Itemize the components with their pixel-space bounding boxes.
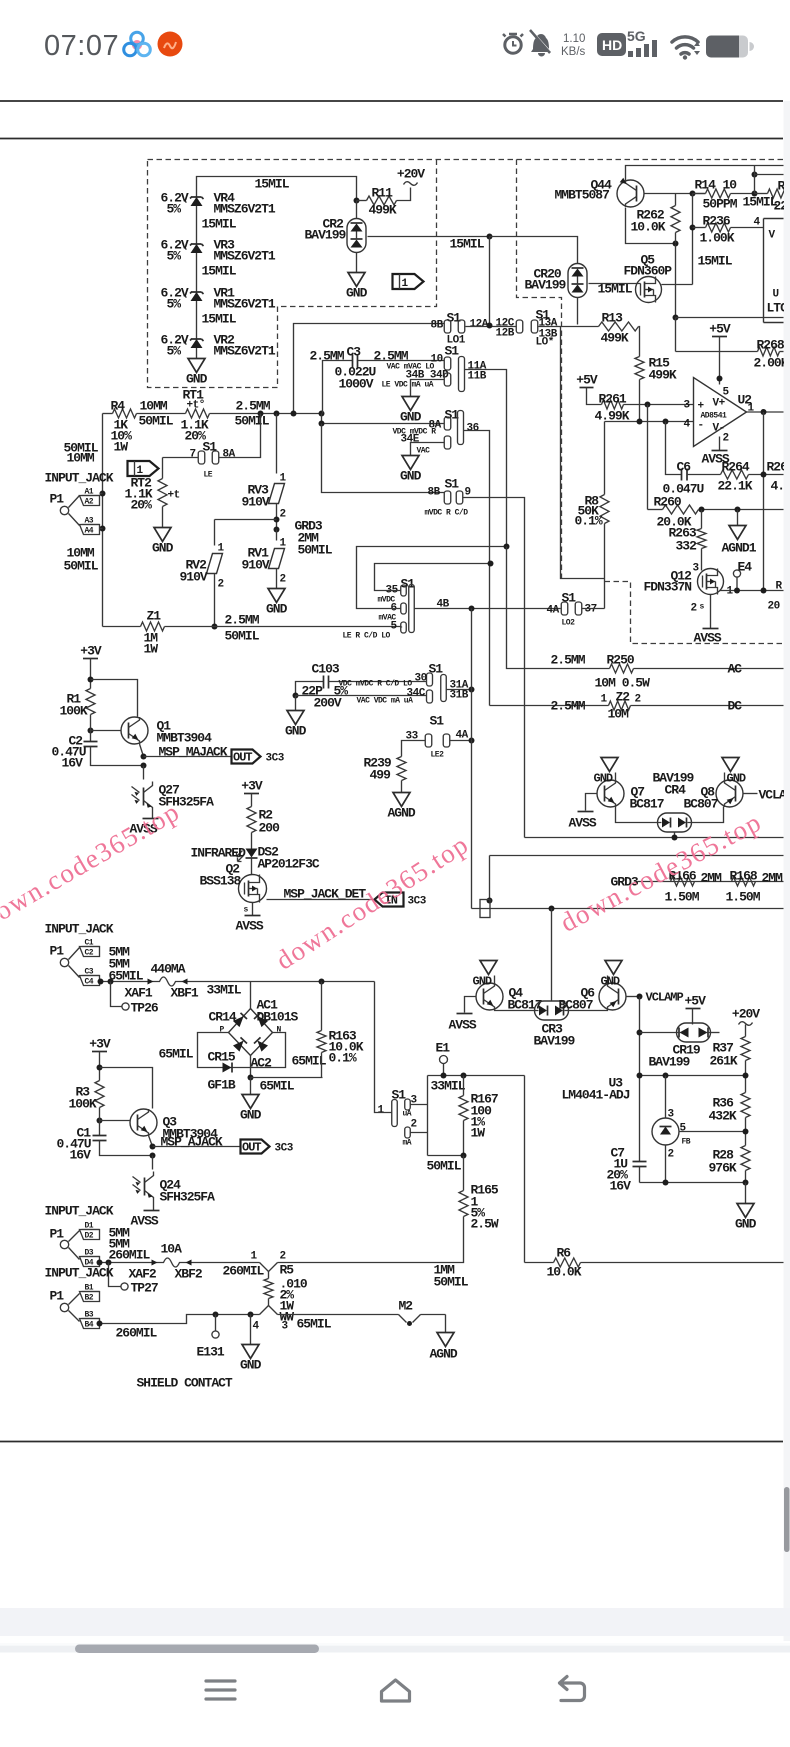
svg-text:P1: P1 [50,492,65,507]
svg-text:1: 1 [218,543,225,555]
status bar HD badge [597,33,626,56]
wire Q1 collector [91,680,138,717]
svg-text:4A: 4A [547,605,560,617]
svg-text:GND: GND [152,541,174,556]
svg-text:LO*: LO* [536,337,554,349]
pad net tie [480,900,490,918]
resistor R168 [726,869,784,905]
label 260MIL B [116,1326,158,1341]
junction jack D b [106,1260,112,1266]
svg-text:65MIL: 65MIL [159,1047,194,1062]
svg-text:+20V: +20V [732,1007,760,1022]
svg-text:R5: R5 [280,1263,295,1278]
label 5MM jack C [109,945,144,984]
switch S1 LE [190,440,236,480]
junction R14 left [690,191,696,197]
wire vclamp rail [490,856,784,901]
svg-text:4: 4 [684,419,691,431]
svg-text:S1: S1 [445,344,460,359]
svg-text:s: s [700,603,705,612]
connector P1 jack D [50,1222,100,1268]
svg-text:E131: E131 [197,1345,225,1360]
svg-text:LM4041-ADJ: LM4041-ADJ [562,1088,630,1103]
svg-text:100K: 100K [60,704,88,719]
svg-text:LE2: LE2 [431,751,445,760]
nav menu button [206,1681,235,1699]
junction wire908 [549,906,555,912]
dashed box right outline [517,160,784,644]
svg-text:2.5W: 2.5W [471,1217,499,1232]
ground R28 [735,1183,757,1232]
power +5V U2 [709,322,731,385]
junction 4B [469,606,475,612]
svg-text:M2: M2 [399,1299,414,1314]
svg-text:V+: V+ [713,398,726,410]
capacitor C1 [57,1108,153,1163]
label INPUT_JACK A [45,471,114,486]
svg-text:AVSS: AVSS [131,1214,159,1229]
svg-text:R6: R6 [557,1246,572,1261]
shunt reference U3 [652,1076,691,1183]
svg-text:AVSS: AVSS [694,631,722,646]
wire CR20 to Q5 [589,283,641,285]
transistor Q6 [559,983,627,1013]
svg-text:10A: 10A [161,1242,183,1257]
junction Q1 emitter b [141,763,147,769]
wire U2 feedback vertical [763,412,765,591]
wire jack D [100,1262,149,1264]
svg-text:R268: R268 [757,338,785,353]
junction Q5-R268 [673,315,679,321]
wire R13 to R15 [639,327,640,357]
wire pin4 to R8 [604,422,606,495]
svg-text:MSP_MAJACK: MSP_MAJACK [159,745,228,760]
junction RT1 wire a [258,411,264,417]
wire 33 to R239 [402,741,426,757]
junction u3bot a [663,1180,669,1186]
svg-text:+5V: +5V [685,994,707,1009]
wire bus524 to CR4 rail [525,837,784,839]
svg-text:+20V: +20V [397,167,425,182]
label 15MIL c [202,312,237,327]
svg-text:A2: A2 [85,498,94,507]
wire U2 pin4 left [605,421,694,423]
resistor R250 [551,653,784,691]
svg-text:C2: C2 [85,949,94,958]
flag IN jackdet [375,893,427,908]
wire Q6 emitter [568,1010,608,1011]
svg-text:50MIL: 50MIL [139,414,174,429]
wire S1 LE right up [219,414,261,458]
svg-text:15MIL: 15MIL [202,312,237,327]
transistor Q3 [130,1109,218,1142]
power +3V DS2 [241,779,263,807]
svg-text:XAF2: XAF2 [129,1267,157,1282]
svg-text:9: 9 [465,487,471,499]
svg-text:15MIL: 15MIL [202,217,237,232]
status bar alarm icon [503,34,523,53]
junction bridge top [319,979,325,985]
resistor R37 [710,1037,751,1093]
status bar time [44,30,119,62]
svg-text:1.50M: 1.50M [665,890,700,905]
label 10MM 50MIL [139,399,174,429]
phototransistor Q24 [133,1156,216,1211]
wire 4A to bus [450,740,472,742]
ground Q4 [473,961,498,989]
switch S1 LOstar [496,308,558,349]
dual diode CR4 [653,771,695,833]
switch S1 uA-mA [378,1088,418,1148]
junction R14 right [752,172,758,197]
wire u3 top rail [640,1075,746,1077]
svg-text:1: 1 [280,538,287,550]
point E4 [733,560,752,591]
label 50MIL [427,1159,462,1174]
capacitor C3 [310,345,445,414]
svg-text:BAV199: BAV199 [305,228,347,243]
wire CR2 mid to right [368,236,490,238]
wire GRD3 [611,875,784,890]
junction LE2 4A [469,738,475,744]
wire pad5 link [401,627,403,628]
junction gnd bottom [248,1312,254,1318]
ground CR2 [346,273,368,301]
switch S1 11AB [444,344,486,392]
svg-text:CR14: CR14 [209,1010,237,1025]
ground AGND R239 [388,793,416,821]
svg-text:200V: 200V [314,696,342,711]
svg-text:15MIL: 15MIL [698,254,733,269]
resistor R2 [247,807,280,849]
svg-text:16V: 16V [70,1148,92,1163]
wire 8B row [322,424,445,493]
svg-text:260MIL: 260MIL [223,1264,265,1279]
svg-text:30: 30 [415,673,427,685]
fuse XAF2 XBF2 [129,1242,203,1282]
resistor R165 [278,1156,499,1263]
svg-text:16V: 16V [62,756,84,771]
svg-text:8A: 8A [223,449,236,461]
zener VR1 [161,286,276,312]
junction 15MIL-12A [487,234,493,240]
resistor RT2 [125,458,180,528]
label VDC mVDC R C/D LO [339,680,413,689]
wire CR3 center [551,909,553,1002]
svg-text:XAF1: XAF1 [125,986,153,1001]
svg-text:KB/s: KB/s [561,46,586,58]
wire fuse to bridge [191,981,375,983]
resistor R268 [676,318,789,371]
wire 34B to gnd [411,380,445,397]
svg-text:2: 2 [668,1149,674,1161]
watermark left [0,796,185,934]
mosfet Q2 [200,862,267,915]
svg-text:DB101S: DB101S [257,1010,299,1025]
svg-text:VDC mVDC R C/D LO: VDC mVDC R C/D LO [339,680,413,689]
label 10MM jack A top [64,441,99,466]
junction U2 pin3 [645,402,651,408]
svg-text:8B: 8B [431,320,444,332]
svg-text:1.50M: 1.50M [726,890,761,905]
svg-text:R: R [776,581,783,593]
wire 33MIL rail [428,1075,525,1077]
svg-text:332: 332 [676,539,698,554]
wire Q44 emitter rail [626,166,784,181]
avss Q27 [130,819,159,837]
svg-text:P1: P1 [50,1227,65,1242]
svg-text:3C3: 3C3 [408,896,427,908]
page second border line [0,138,783,140]
svg-text:+5V: +5V [709,322,731,337]
junction C103 [293,693,299,699]
svg-text:3: 3 [684,400,691,412]
svg-text:INPUT_JACK: INPUT_JACK [45,1204,114,1219]
junction r165 top [461,1153,467,1159]
junction jack A lower [100,526,106,532]
wire U2 in- branch [647,405,649,510]
svg-text:0.1%: 0.1% [575,514,603,529]
switch S1 LE2 [406,714,469,760]
status bar battery icon [706,36,754,58]
svg-text:50MIL: 50MIL [225,629,260,644]
svg-text:910V: 910V [242,558,270,573]
junction Q1 emitter [141,754,147,760]
capacitor C7 [607,1146,647,1194]
svg-text:FB: FB [682,1138,691,1147]
svg-text:1W: 1W [471,1126,486,1141]
svg-text:MMSZ6V2T1: MMSZ6V2T1 [214,202,276,217]
svg-text:R13: R13 [602,311,624,326]
wire Q4 emitter [495,1010,536,1011]
wire Q12 source avss [694,595,722,646]
resistor Z1 [103,609,402,657]
wire bus 471 vertical [471,609,473,909]
wire 12A vertical [489,237,491,325]
wire Q5 drain up [662,284,693,286]
svg-text:BC817: BC817 [630,797,664,812]
junction R36 bottom [743,1129,749,1135]
wire S1 LE left [163,457,199,459]
resistor R14 [693,178,755,212]
svg-text:s: s [244,906,249,915]
svg-text:SHIELD CONTACT: SHIELD CONTACT [137,1376,233,1391]
svg-text:2MM: 2MM [701,871,723,886]
svg-text:GND: GND [266,602,288,617]
svg-text:5G: 5G [627,28,646,44]
label VAC mVAC LO [387,363,435,372]
page right margin strip [784,101,790,1641]
svg-text:AD8541: AD8541 [701,412,728,421]
svg-text:A4: A4 [85,527,94,536]
label 65MIL bridge right [292,1054,327,1069]
svg-text:S1: S1 [392,1088,407,1103]
label 260MIL R5 [223,1264,265,1279]
junction e1 [441,1073,447,1079]
junction vclamp drop [487,898,493,904]
svg-text:BAV199: BAV199 [534,1034,576,1049]
junction u3rail c [743,1073,749,1079]
svg-text:10.0K: 10.0K [631,220,666,235]
junction Q3 emitter b [150,1153,156,1159]
svg-text:GND: GND [346,286,368,301]
svg-text:+t°: +t° [187,400,205,412]
ground RV1 [266,589,288,617]
svg-text:Z2: Z2 [616,690,631,705]
svg-text:8B: 8B [428,487,441,499]
svg-text:AGND: AGND [388,806,416,821]
wire pad9 down [463,498,525,838]
label 65MIL bridge bot [260,1079,295,1094]
label 10 pad [431,354,443,366]
led DS2 [191,845,320,872]
svg-text:5: 5 [391,621,398,633]
svg-text:2: 2 [723,433,729,445]
wire pad3 [411,1104,428,1106]
svg-text:BSS138: BSS138 [200,874,242,889]
testpoint TP27 [109,1263,158,1296]
wire Q5 right vertical [675,245,677,318]
svg-text:5%: 5% [167,249,182,264]
svg-text:MMBT3904: MMBT3904 [157,731,213,746]
wire Q7 emitter [616,807,658,823]
svg-text:4.: 4. [771,479,785,494]
svg-text:MMSZ6V2T1: MMSZ6V2T1 [214,249,276,264]
transistor Q7 [597,780,664,812]
avss Q24 [131,1211,160,1229]
wire Q7 base avss [569,794,597,831]
svg-text:-: - [698,420,704,432]
page flag 1 in box [393,274,424,290]
svg-text:15MIL: 15MIL [598,282,633,297]
svg-text:AVSS: AVSS [449,1018,477,1033]
junction pad35 [488,561,494,567]
wire 50MIL rail [428,1155,464,1157]
svg-text:10.0K: 10.0K [547,1265,582,1280]
svg-text:5%: 5% [167,297,182,312]
svg-text:36: 36 [467,423,479,435]
svg-text:2.5MM: 2.5MM [551,699,586,714]
varistor RV2 [180,520,225,627]
wire CR2 bottom to ground [356,253,358,273]
svg-text:33MIL: 33MIL [431,1079,466,1094]
wire MSP_JACK_DET [267,887,375,902]
varistor RV1 [242,530,287,589]
svg-text:2.5MM: 2.5MM [225,613,260,628]
junction R1 top [88,677,94,683]
phototransistor Q27 [132,766,215,819]
svg-text:5: 5 [723,387,730,399]
vertical scrollbar thumb [784,1487,790,1552]
svg-text:P1: P1 [50,944,65,959]
svg-text:S1: S1 [429,662,444,677]
mosfet Q5 [624,253,673,303]
junction R262 top [673,241,679,247]
svg-text:2.5MM: 2.5MM [236,399,271,414]
resistor R167 [459,1076,498,1156]
resistor R15 [635,356,677,422]
zener VR3 [161,238,276,264]
svg-text:B2: B2 [85,1294,94,1303]
svg-text:5%: 5% [167,202,182,217]
svg-text:CR15: CR15 [208,1050,236,1065]
wire Q4 base avss [449,997,477,1033]
svg-text:34C: 34C [407,688,426,700]
transistor Q1 [121,717,212,746]
svg-text:LE VDC mA uA: LE VDC mA uA [382,381,434,390]
svg-text:AGND1: AGND1 [722,541,757,556]
wire pad2 [411,1132,428,1134]
junction RT1 wire b [274,411,280,417]
svg-text:1: 1 [378,1105,385,1117]
svg-text:499K: 499K [601,331,629,346]
svg-text:200: 200 [259,821,281,836]
wire Q3 collector [100,1068,153,1109]
svg-text:33MIL: 33MIL [207,983,242,998]
connector P1 jack A [50,488,103,536]
ground bottom [240,1315,262,1373]
dual diode CR20 [525,264,588,298]
label 15MIL b [202,264,237,279]
svg-text:20%: 20% [131,498,153,513]
junction jack C a [98,979,104,985]
wire 11AB down [465,370,507,546]
wire 34C row [296,695,427,697]
wire bus471 bottom [472,908,784,910]
svg-text:C3: C3 [347,345,362,360]
svg-text:50MIL: 50MIL [64,559,99,574]
resistor R11 [357,186,411,218]
label 2.5MM 50MIL Z1 [225,613,260,644]
svg-text:R236: R236 [703,214,731,229]
flag OUT ajack [241,1140,294,1155]
switch S1 8B-9 [425,477,471,518]
junction C6 left [663,419,669,425]
label 15MIL R236 [698,254,733,269]
switch S1 4B [378,577,450,634]
svg-text:S1: S1 [445,477,460,492]
svg-text:2.5MM: 2.5MM [551,653,586,668]
wire top rail VR4 to CR2 [197,177,357,201]
junction r167 top [461,1073,467,1079]
flag OUT majack [232,750,285,765]
junction 31AB [469,687,475,693]
watermark center [270,829,474,976]
svg-text:OUT: OUT [242,1141,261,1155]
point E131 [197,1315,225,1360]
label U3 [562,1076,630,1103]
svg-text:LO2: LO2 [562,619,576,628]
avss Q2 [236,916,264,934]
svg-text:2: 2 [635,694,641,706]
ground bridge [240,1078,262,1123]
svg-text:MMSZ6V2T1: MMSZ6V2T1 [214,297,276,312]
wire CR20 bottom [577,298,579,325]
wire vclamp down [639,997,641,1162]
wire Q3 emitter [149,1136,153,1147]
wire 4B row [415,608,561,610]
svg-text:50MIL: 50MIL [235,414,270,429]
status bar muted bell icon [530,30,551,57]
svg-text:GND: GND [601,975,620,989]
resistor R1 [60,689,96,719]
capacitor C2 [52,715,144,771]
wire Q1 base [91,730,121,732]
point E1 [436,1041,451,1076]
svg-text:FDN360P: FDN360P [624,264,673,279]
svg-text:S1: S1 [562,591,577,606]
wire bridge bottom [248,1056,254,1081]
